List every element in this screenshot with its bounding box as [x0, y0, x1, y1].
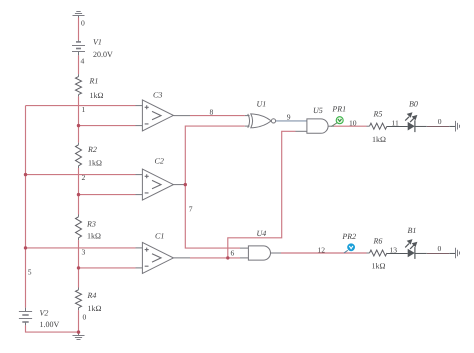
- svg-text:7: 7: [189, 205, 193, 214]
- svg-text:13: 13: [390, 245, 398, 254]
- svg-text:B1: B1: [408, 226, 417, 235]
- svg-text:0: 0: [81, 19, 85, 28]
- svg-text:0: 0: [83, 313, 87, 322]
- svg-text:V1: V1: [93, 38, 102, 47]
- svg-text:C3: C3: [153, 91, 162, 100]
- svg-text:R1: R1: [89, 77, 99, 86]
- svg-text:8: 8: [210, 108, 214, 117]
- svg-text:R6: R6: [373, 236, 383, 245]
- svg-text:0: 0: [438, 244, 442, 253]
- svg-text:U5: U5: [313, 106, 323, 115]
- svg-text:1.00V: 1.00V: [40, 320, 60, 329]
- svg-text:1kΩ: 1kΩ: [90, 91, 104, 100]
- svg-text:R3: R3: [86, 220, 96, 229]
- svg-text:1kΩ: 1kΩ: [88, 304, 102, 313]
- svg-text:11: 11: [392, 118, 400, 127]
- svg-text:R2: R2: [87, 145, 97, 154]
- svg-text:1kΩ: 1kΩ: [88, 159, 102, 168]
- svg-text:R4: R4: [87, 291, 97, 300]
- svg-text:10: 10: [349, 118, 357, 127]
- svg-text:12: 12: [318, 245, 326, 254]
- svg-text:3: 3: [82, 248, 86, 257]
- svg-text:20.0V: 20.0V: [93, 50, 113, 59]
- svg-text:9: 9: [287, 113, 291, 122]
- svg-text:PR1: PR1: [331, 105, 346, 114]
- svg-text:R5: R5: [373, 110, 383, 119]
- svg-text:6: 6: [231, 249, 235, 258]
- svg-text:C1: C1: [155, 232, 164, 241]
- svg-text:1: 1: [82, 105, 86, 114]
- svg-text:5: 5: [28, 268, 32, 277]
- svg-text:2: 2: [82, 173, 86, 182]
- svg-text:C2: C2: [155, 157, 164, 166]
- svg-text:PR2: PR2: [341, 232, 356, 241]
- svg-text:B0: B0: [409, 99, 418, 108]
- svg-text:1kΩ: 1kΩ: [372, 262, 386, 271]
- svg-text:0: 0: [438, 117, 442, 126]
- svg-text:V2: V2: [40, 309, 49, 318]
- svg-text:U1: U1: [257, 100, 267, 109]
- svg-text:1kΩ: 1kΩ: [87, 232, 101, 241]
- svg-text:4: 4: [81, 57, 85, 66]
- svg-text:1kΩ: 1kΩ: [372, 135, 386, 144]
- svg-text:U4: U4: [257, 229, 267, 238]
